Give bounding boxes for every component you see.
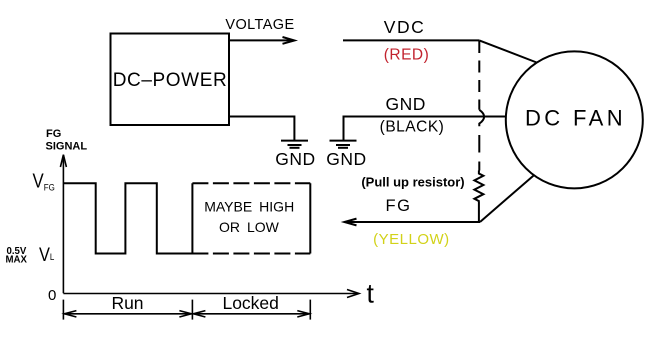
dashed pull-up net (lower segment) — [478, 135, 480, 171]
svg-text:DC–POWER: DC–POWER — [113, 70, 228, 91]
wire: fan ground return — [344, 117, 506, 141]
svg-text:t: t — [367, 279, 375, 309]
Run interval dimension — [64, 311, 191, 317]
svg-text:DC FAN: DC FAN — [525, 106, 626, 131]
svg-text:MAYBE HIGH: MAYBE HIGH — [204, 199, 294, 215]
wire: resistor to FG junction — [478, 201, 480, 222]
dashed pull-up net (upper segment) — [478, 41, 480, 110]
0.5V MAX note — [6, 246, 28, 266]
svg-text:GND: GND — [326, 149, 366, 169]
dimension extension ticks — [63, 300, 310, 320]
svg-text:SIGNAL: SIGNAL — [46, 141, 88, 153]
ground symbol (power side) — [281, 141, 308, 148]
svg-text:GND: GND — [275, 149, 315, 169]
svg-text:Locked: Locked — [222, 293, 278, 313]
maybe-high-or-low region box — [192, 183, 310, 253]
DC power supply block U1 — [111, 34, 230, 126]
ground symbol (fan side) — [330, 141, 357, 148]
svg-text:(Pull up resistor): (Pull up resistor) — [361, 175, 464, 190]
svg-text:VOLTAGE: VOLTAGE — [225, 17, 294, 33]
wire: VDC lead to fan — [479, 40, 536, 62]
svg-text:(RED): (RED) — [384, 47, 430, 64]
FG SIGNAL axis caption — [46, 128, 88, 153]
wire: FG lead to fan — [480, 176, 534, 222]
svg-text:GND: GND — [386, 94, 426, 114]
wire: FG output with arrow — [344, 219, 480, 226]
svg-text:FG: FG — [46, 128, 61, 140]
signal plot X axis — [63, 290, 359, 298]
signal plot Y axis — [60, 155, 66, 294]
FG waveform trace — [63, 183, 192, 253]
svg-text:VDC: VDC — [384, 17, 425, 37]
svg-text:MAX: MAX — [6, 254, 28, 265]
wire: VDC supply — [343, 39, 479, 41]
wire: voltage output with arrow — [229, 37, 294, 44]
svg-text:Run: Run — [111, 293, 143, 313]
pull-up resistor R1 — [474, 171, 483, 202]
wire hop over ground wire — [479, 110, 484, 127]
svg-text:(YELLOW): (YELLOW) — [373, 231, 450, 248]
svg-text:OR LOW: OR LOW — [219, 219, 280, 235]
svg-text:FG: FG — [386, 197, 412, 215]
svg-text:(BLACK): (BLACK) — [380, 119, 445, 136]
wire: power supply ground — [229, 117, 294, 141]
Locked interval dimension — [193, 311, 309, 317]
maybe high or low caption — [204, 199, 294, 236]
DC fan M1 — [506, 51, 643, 188]
svg-text:0: 0 — [48, 287, 56, 304]
